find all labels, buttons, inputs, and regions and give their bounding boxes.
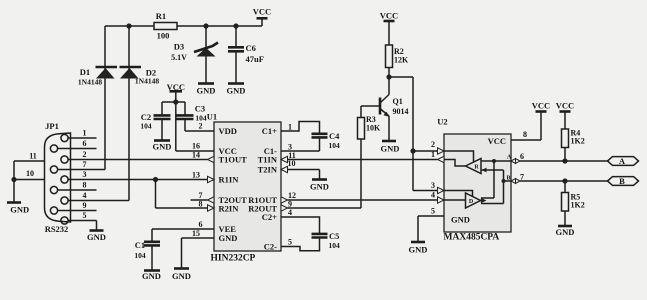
svg-text:5: 5 <box>431 207 435 216</box>
svg-text:15: 15 <box>192 229 200 238</box>
svg-text:GND: GND <box>197 86 216 96</box>
svg-text:C2+: C2+ <box>262 212 277 222</box>
svg-text:100: 100 <box>157 31 170 41</box>
svg-text:2: 2 <box>83 150 87 159</box>
svg-text:5.1V: 5.1V <box>171 53 187 62</box>
svg-text:104: 104 <box>329 241 341 250</box>
svg-text:VDD: VDD <box>219 126 237 136</box>
svg-text:104: 104 <box>140 122 152 131</box>
svg-text:D1: D1 <box>80 67 90 77</box>
svg-text:GND: GND <box>10 205 29 215</box>
svg-text:T2IN: T2IN <box>258 164 278 174</box>
svg-text:104: 104 <box>329 141 341 150</box>
svg-text:1K2: 1K2 <box>571 137 585 146</box>
svg-text:B: B <box>619 176 625 186</box>
svg-text:10: 10 <box>26 169 34 178</box>
svg-text:D3: D3 <box>174 42 184 52</box>
svg-text:VCC: VCC <box>556 101 574 111</box>
svg-text:R1IN: R1IN <box>219 174 240 184</box>
svg-text:13: 13 <box>192 171 200 180</box>
svg-text:Q1: Q1 <box>393 97 403 106</box>
svg-text:1: 1 <box>83 129 87 138</box>
svg-text:1N4148: 1N4148 <box>135 77 159 86</box>
svg-text:C1: C1 <box>135 240 145 250</box>
svg-text:C6: C6 <box>246 43 256 53</box>
svg-text:GND: GND <box>172 271 191 281</box>
svg-text:6: 6 <box>199 220 203 229</box>
svg-text:T1IN: T1IN <box>258 154 278 164</box>
svg-text:GND: GND <box>409 245 428 255</box>
svg-text:VCC: VCC <box>167 82 185 92</box>
svg-text:10K: 10K <box>366 124 381 133</box>
svg-text:D: D <box>469 199 474 205</box>
svg-text:C2: C2 <box>141 112 151 122</box>
svg-text:B: B <box>506 176 510 182</box>
svg-text:A: A <box>619 156 626 166</box>
svg-text:1N4148: 1N4148 <box>78 78 102 87</box>
svg-text:6: 6 <box>520 152 524 161</box>
svg-text:3: 3 <box>431 181 435 190</box>
svg-text:16: 16 <box>192 142 200 151</box>
svg-text:R2IN: R2IN <box>219 203 240 213</box>
svg-text:GND: GND <box>142 271 161 281</box>
svg-text:10: 10 <box>288 159 296 168</box>
svg-text:HIN232CP: HIN232CP <box>211 254 256 264</box>
svg-text:GND: GND <box>310 182 329 192</box>
svg-text:11: 11 <box>29 152 37 161</box>
svg-text:GND: GND <box>227 86 246 96</box>
svg-text:12K: 12K <box>394 56 409 65</box>
svg-text:8: 8 <box>199 200 203 209</box>
svg-text:R: R <box>474 164 479 170</box>
svg-text:VCC: VCC <box>488 136 506 146</box>
svg-text:C2-: C2- <box>264 241 277 251</box>
svg-text:GND: GND <box>219 233 238 243</box>
svg-text:104: 104 <box>134 251 146 260</box>
svg-text:2: 2 <box>431 140 435 149</box>
svg-text:VCC: VCC <box>380 11 398 21</box>
svg-text:3: 3 <box>83 170 87 179</box>
svg-text:R1: R1 <box>156 11 166 21</box>
svg-text:JP1: JP1 <box>45 121 59 131</box>
svg-text:4: 4 <box>431 191 435 200</box>
svg-text:C5: C5 <box>329 231 339 241</box>
svg-text:8: 8 <box>83 181 87 190</box>
svg-text:GND: GND <box>153 142 172 152</box>
svg-text:1: 1 <box>288 123 292 132</box>
svg-text:8: 8 <box>523 130 527 139</box>
svg-text:7: 7 <box>520 173 524 182</box>
svg-text:T1OUT: T1OUT <box>219 154 248 164</box>
svg-text:A: A <box>507 155 512 161</box>
svg-text:MAX485CPA: MAX485CPA <box>444 233 500 243</box>
svg-text:VCC: VCC <box>532 101 550 111</box>
svg-text:U2: U2 <box>437 117 447 127</box>
svg-text:1K2: 1K2 <box>571 201 585 210</box>
svg-text:U1: U1 <box>207 112 217 122</box>
svg-text:9014: 9014 <box>393 107 409 116</box>
svg-text:14: 14 <box>192 151 200 160</box>
svg-text:VCC: VCC <box>253 7 271 17</box>
svg-text:5: 5 <box>83 211 87 220</box>
svg-text:GND: GND <box>451 214 470 224</box>
svg-text:C4: C4 <box>329 131 340 141</box>
svg-text:5: 5 <box>288 238 292 247</box>
svg-text:C1+: C1+ <box>262 126 277 136</box>
svg-text:2: 2 <box>199 122 203 131</box>
svg-text:4: 4 <box>288 208 292 217</box>
svg-text:C3: C3 <box>195 104 205 114</box>
svg-text:9: 9 <box>83 201 87 210</box>
svg-text:4: 4 <box>83 191 87 200</box>
svg-text:GND: GND <box>556 227 575 237</box>
svg-text:6: 6 <box>83 139 87 148</box>
svg-text:RS232: RS232 <box>45 224 69 234</box>
svg-text:GND: GND <box>87 232 106 242</box>
svg-text:47uF: 47uF <box>246 54 264 64</box>
svg-text:GND: GND <box>381 144 400 154</box>
svg-text:1: 1 <box>431 150 435 159</box>
svg-text:7: 7 <box>83 160 87 169</box>
